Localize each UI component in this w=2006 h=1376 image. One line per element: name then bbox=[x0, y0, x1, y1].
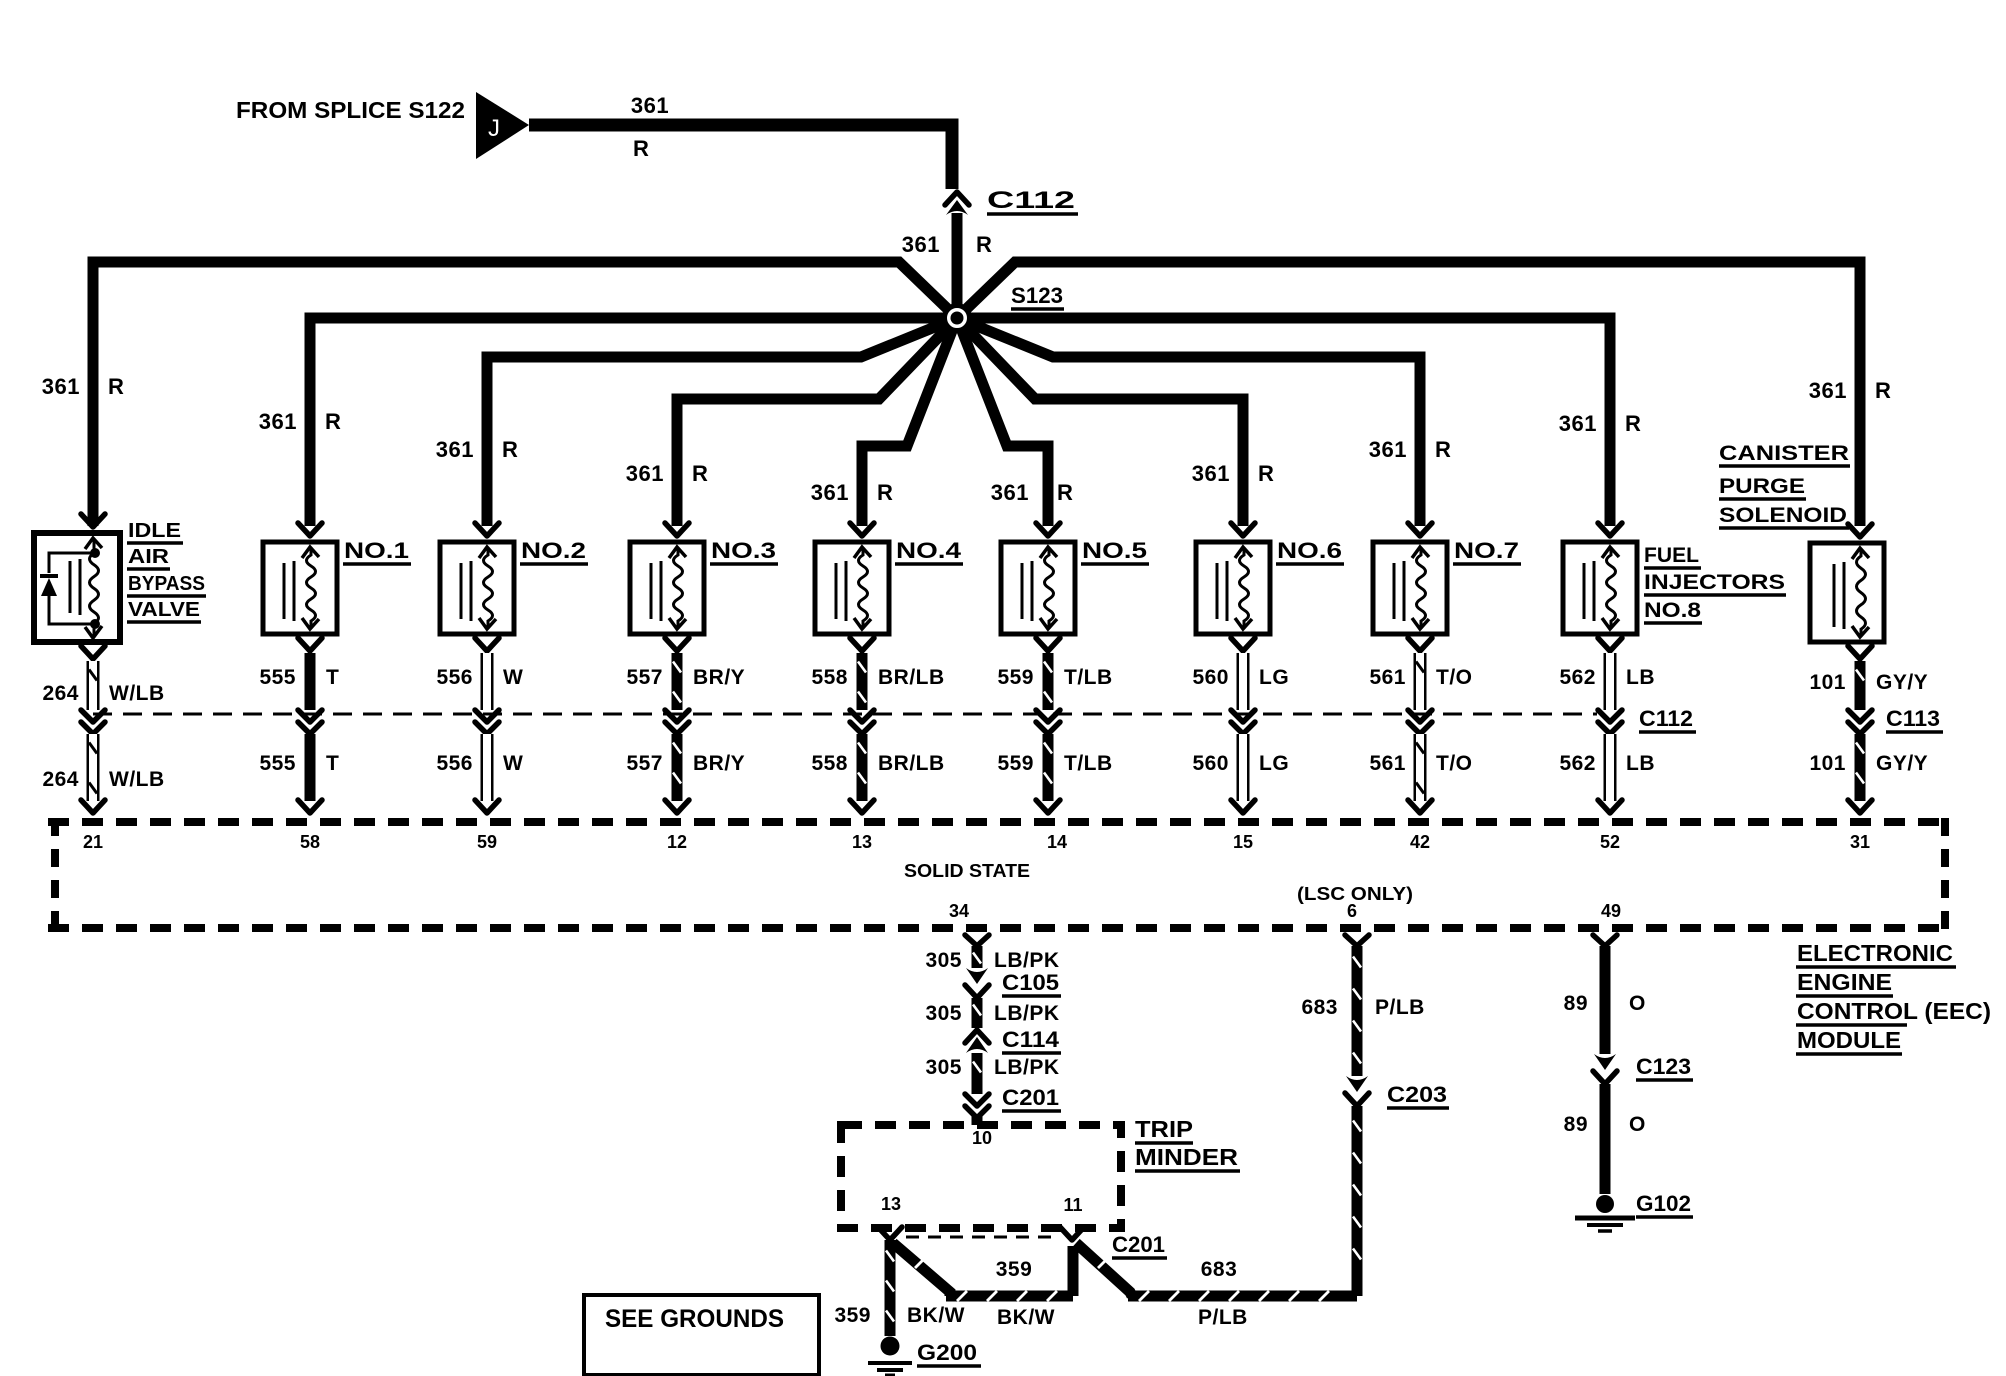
svg-text:R: R bbox=[1625, 411, 1641, 436]
ground G102 symbol bbox=[1596, 1195, 1614, 1213]
svg-text:BYPASS: BYPASS bbox=[128, 573, 205, 595]
wire 361 R from C112 to splice S123 bbox=[952, 213, 963, 318]
svg-text:C112: C112 bbox=[1639, 706, 1693, 731]
connector cup at EEC module pin 58 bbox=[298, 800, 322, 813]
connector crossing at harness line (x=1420) lower cup bbox=[1408, 722, 1432, 734]
svg-text:361: 361 bbox=[811, 480, 849, 505]
svg-text:49: 49 bbox=[1601, 901, 1621, 921]
connector cup below component (x=1420) bbox=[1408, 638, 1432, 651]
svg-text:R: R bbox=[1875, 378, 1891, 403]
connector cup at top of component (x=1420) bbox=[1408, 523, 1432, 536]
connector cup at trip minder pin 11 bbox=[1060, 1227, 1084, 1240]
splice arrow J (from splice S122) bbox=[476, 92, 529, 159]
connector cup at EEC pin 34 bbox=[965, 935, 989, 946]
connector crossing at harness line (x=1243) lower cup bbox=[1231, 722, 1255, 734]
svg-text:W: W bbox=[503, 666, 523, 689]
svg-text:359: 359 bbox=[834, 1304, 871, 1327]
svg-text:R: R bbox=[1057, 480, 1073, 505]
svg-text:FROM SPLICE S122: FROM SPLICE S122 bbox=[236, 97, 465, 123]
svg-text:361: 361 bbox=[631, 93, 669, 118]
svg-text:361: 361 bbox=[436, 437, 474, 462]
svg-text:683: 683 bbox=[1301, 996, 1338, 1019]
connector C201 lower cup (305 wire) bbox=[965, 1106, 989, 1118]
svg-text:PURGE: PURGE bbox=[1719, 475, 1805, 498]
connector crossing at harness line (x=862) lower cup bbox=[850, 722, 874, 734]
wire 361 R from splice S123 to injector NO.7 bbox=[957, 318, 1420, 526]
svg-text:558: 558 bbox=[811, 666, 848, 689]
wire 555 T lower segment bbox=[305, 734, 316, 801]
wire vertical up to trip minder pin 11 bbox=[1068, 1246, 1079, 1296]
wire 305 into trip minder bbox=[972, 1116, 983, 1125]
wire 361 R from splice S123 to injector NO.4 bbox=[862, 318, 957, 526]
svg-text:21: 21 bbox=[83, 832, 103, 852]
connector crossing at harness line (x=487) upper cup bbox=[475, 710, 499, 722]
svg-text:NO.3: NO.3 bbox=[711, 538, 776, 563]
svg-text:305: 305 bbox=[925, 949, 962, 972]
connector cup at EEC pin 49 bbox=[1593, 935, 1617, 946]
svg-text:361: 361 bbox=[626, 461, 664, 486]
svg-text:683: 683 bbox=[1201, 1258, 1238, 1281]
svg-text:BR/Y: BR/Y bbox=[693, 666, 745, 689]
svg-text:R: R bbox=[877, 480, 893, 505]
wire 361 R from splice S123 to injector NO.8 bbox=[957, 318, 1610, 526]
svg-text:T/LB: T/LB bbox=[1064, 752, 1113, 775]
svg-text:W/LB: W/LB bbox=[109, 682, 165, 705]
connector cup at EEC module pin 31 bbox=[1848, 800, 1872, 813]
fuel injector NO.6 bbox=[1196, 542, 1270, 634]
svg-text:C105: C105 bbox=[1002, 970, 1059, 995]
svg-text:361: 361 bbox=[259, 409, 297, 434]
svg-text:562: 562 bbox=[1559, 752, 1596, 775]
svg-text:VALVE: VALVE bbox=[128, 599, 200, 621]
svg-text:S123: S123 bbox=[1011, 283, 1063, 308]
svg-text:NO.7: NO.7 bbox=[1454, 538, 1519, 563]
connector C203 female cup bbox=[1345, 1093, 1369, 1106]
wire 361 R from splice S123 to injector NO.1 bbox=[310, 318, 957, 526]
wire 560 LG upper segment bbox=[1237, 653, 1250, 710]
connector cup at top of component (x=1860) bbox=[1848, 524, 1872, 537]
svg-text:G200: G200 bbox=[917, 1340, 977, 1365]
wire 89 O from pin 49 to C123 bbox=[1600, 946, 1611, 1054]
wire 561 T/O lower segment bbox=[1414, 734, 1427, 801]
connector crossing at harness line (x=1243) upper cup bbox=[1231, 710, 1255, 722]
svg-text:R: R bbox=[1258, 461, 1274, 486]
svg-text:CONTROL (EEC): CONTROL (EEC) bbox=[1797, 998, 1991, 1024]
svg-text:MINDER: MINDER bbox=[1135, 1144, 1238, 1170]
svg-text:264: 264 bbox=[42, 682, 79, 705]
connector line C201 (dashed, below trip minder) bbox=[906, 1236, 1059, 1239]
svg-text:562: 562 bbox=[1559, 666, 1596, 689]
fuel injector NO.5 bbox=[1001, 542, 1075, 634]
wire 683 P/LB from pin 6 to C203 bbox=[1352, 946, 1363, 1076]
svg-text:C201: C201 bbox=[1112, 1232, 1165, 1257]
svg-text:89: 89 bbox=[1564, 1113, 1588, 1136]
wire 559 T/LB upper segment bbox=[1043, 653, 1054, 710]
connector crossing at harness line (x=310) lower cup bbox=[298, 722, 322, 734]
svg-text:G102: G102 bbox=[1636, 1191, 1691, 1216]
connector crossing at harness line (x=1610) lower cup bbox=[1598, 722, 1622, 734]
svg-text:R: R bbox=[976, 232, 992, 257]
connector C123 male arrow bbox=[1594, 1054, 1616, 1070]
svg-text:C114: C114 bbox=[1002, 1027, 1060, 1052]
svg-text:31: 31 bbox=[1850, 832, 1870, 852]
wire 305 LB/PK segment 1 bbox=[972, 946, 983, 968]
wire 305 LB/PK segment 2 bbox=[972, 998, 983, 1028]
svg-text:P/LB: P/LB bbox=[1375, 996, 1425, 1019]
connector C123 female cup bbox=[1593, 1071, 1617, 1084]
wire 264 W/LB upper segment bbox=[87, 661, 100, 710]
connector C105 female cup bbox=[965, 985, 989, 998]
svg-text:561: 561 bbox=[1369, 666, 1406, 689]
connector cup below component (x=677) bbox=[665, 638, 689, 651]
svg-text:NO.6: NO.6 bbox=[1277, 538, 1342, 563]
svg-text:52: 52 bbox=[1600, 832, 1620, 852]
svg-text:557: 557 bbox=[626, 752, 663, 775]
svg-text:ENGINE: ENGINE bbox=[1797, 969, 1892, 995]
svg-text:NO.8: NO.8 bbox=[1644, 599, 1701, 622]
connector cup at EEC module pin 21 bbox=[81, 800, 105, 813]
connector cup below component (x=487) bbox=[475, 638, 499, 651]
connector cup at trip minder pin 13 bbox=[878, 1227, 902, 1240]
svg-text:SOLENOID: SOLENOID bbox=[1719, 504, 1847, 527]
svg-text:101: 101 bbox=[1809, 671, 1846, 694]
connector cup at EEC module pin 52 bbox=[1598, 800, 1622, 813]
svg-text:34: 34 bbox=[949, 901, 969, 921]
svg-text:LB/PK: LB/PK bbox=[994, 949, 1060, 972]
connector crossing at harness line (x=93) lower cup bbox=[81, 722, 105, 734]
svg-text:559: 559 bbox=[997, 666, 1034, 689]
svg-text:ELECTRONIC: ELECTRONIC bbox=[1797, 940, 1953, 966]
wire 560 LG lower segment bbox=[1237, 734, 1250, 801]
wire 683 P/LB from C203 down to horizontal run bbox=[1352, 1106, 1363, 1296]
svg-text:556: 556 bbox=[436, 666, 473, 689]
svg-text:12: 12 bbox=[667, 832, 687, 852]
connector cup at EEC module pin 12 bbox=[665, 800, 689, 813]
connector cup at top of component (x=677) bbox=[665, 523, 689, 536]
connector cup at EEC module pin 15 bbox=[1231, 800, 1255, 813]
wire 89 O from C123 to ground G102 bbox=[1600, 1084, 1611, 1194]
connector C114 female cup (facing down) bbox=[965, 1030, 989, 1043]
svg-text:13: 13 bbox=[881, 1194, 901, 1214]
svg-text:TRIP: TRIP bbox=[1135, 1116, 1193, 1142]
idle air bypass valve (box with diode, core and coil) bbox=[34, 533, 120, 642]
connector cup at top of component (x=487) bbox=[475, 523, 499, 536]
fuel injector NO.8 bbox=[1563, 542, 1637, 634]
connector crossing at harness line (x=1860) lower cup bbox=[1848, 722, 1872, 734]
wire 361 R from splice S123 to injector NO.3 bbox=[677, 318, 957, 526]
svg-text:NO.5: NO.5 bbox=[1082, 538, 1147, 563]
wire 361 R from splice S123 to idle air bypass valve bbox=[93, 262, 957, 526]
fuel injector NO.3 bbox=[630, 542, 704, 634]
svg-text:561: 561 bbox=[1369, 752, 1406, 775]
svg-text:560: 560 bbox=[1192, 666, 1229, 689]
connector cup at top of component (x=310) bbox=[298, 523, 322, 536]
svg-text:R: R bbox=[692, 461, 708, 486]
canister purge solenoid (box with core and coil) bbox=[1810, 543, 1884, 642]
wire 264 W/LB lower segment bbox=[87, 734, 100, 801]
wire 558 BR/LB lower segment bbox=[857, 734, 868, 801]
svg-text:P/LB: P/LB bbox=[1198, 1306, 1248, 1329]
wire 359 BK/W horizontal run bbox=[946, 1291, 1073, 1302]
wire 361 R from splice S123 to injector NO.2 bbox=[487, 318, 957, 526]
svg-text:C112: C112 bbox=[987, 187, 1075, 214]
wire 557 BR/Y lower segment bbox=[672, 734, 683, 801]
connector cup at EEC module pin 59 bbox=[475, 800, 499, 813]
svg-text:LB: LB bbox=[1626, 752, 1655, 775]
wire 361 R from splice S123 to injector NO.6 bbox=[957, 318, 1243, 526]
wire 361 R from splice S122 to connector C112 bbox=[529, 125, 952, 189]
svg-text:LB/PK: LB/PK bbox=[994, 1002, 1060, 1025]
fuel injector NO.7 bbox=[1373, 542, 1447, 634]
svg-text:IDLE: IDLE bbox=[128, 520, 181, 542]
svg-text:J: J bbox=[488, 115, 500, 142]
electronic engine control (EEC) module dashed box bbox=[48, 818, 1952, 826]
svg-text:LG: LG bbox=[1259, 752, 1289, 775]
connector cup below component (x=1610) bbox=[1598, 638, 1622, 651]
connector cup at EEC module pin 14 bbox=[1036, 800, 1060, 813]
svg-text:10: 10 bbox=[972, 1128, 992, 1148]
wire 305 LB/PK segment 3 bbox=[972, 1053, 983, 1094]
connector crossing at harness line (x=677) upper cup bbox=[665, 710, 689, 722]
svg-text:361: 361 bbox=[1559, 411, 1597, 436]
svg-text:555: 555 bbox=[259, 666, 296, 689]
connector C112 bottom half (male arrow) bbox=[946, 200, 968, 215]
splice S123 junction dot bbox=[945, 306, 970, 331]
diode inside idle air bypass valve bbox=[40, 574, 58, 578]
svg-text:13: 13 bbox=[852, 832, 872, 852]
svg-text:560: 560 bbox=[1192, 752, 1229, 775]
svg-text:BR/LB: BR/LB bbox=[878, 752, 945, 775]
connector crossing at harness line (x=1420) upper cup bbox=[1408, 710, 1432, 722]
top inner arrow idle air bypass valve bbox=[85, 538, 102, 549]
svg-text:R: R bbox=[502, 437, 518, 462]
connector cup at top of component (x=1610) bbox=[1598, 523, 1622, 536]
fuel injector NO.4 bbox=[815, 542, 889, 634]
coil inside idle air bypass valve bbox=[90, 540, 99, 637]
svg-text:101: 101 bbox=[1809, 752, 1846, 775]
connector cup below component (x=1860) bbox=[1848, 646, 1872, 659]
svg-text:BK/W: BK/W bbox=[997, 1306, 1055, 1329]
svg-text:AIR: AIR bbox=[128, 546, 170, 568]
connector cup below component (x=862) bbox=[850, 638, 874, 651]
svg-text:INJECTORS: INJECTORS bbox=[1644, 571, 1785, 594]
svg-text:58: 58 bbox=[300, 832, 320, 852]
svg-text:359: 359 bbox=[996, 1258, 1033, 1281]
svg-text:T: T bbox=[326, 666, 339, 689]
svg-text:361: 361 bbox=[902, 232, 940, 257]
svg-text:555: 555 bbox=[259, 752, 296, 775]
connector C105 male arrow bbox=[966, 968, 988, 984]
connector cup below component (x=1048) bbox=[1036, 638, 1060, 651]
svg-text:GY/Y: GY/Y bbox=[1876, 752, 1928, 775]
svg-text:R: R bbox=[1435, 437, 1451, 462]
svg-text:NO.2: NO.2 bbox=[521, 538, 586, 563]
fuel injector NO.1 bbox=[263, 542, 337, 634]
svg-text:LG: LG bbox=[1259, 666, 1289, 689]
connector crossing at harness line (x=677) lower cup bbox=[665, 722, 689, 734]
svg-text:LB/PK: LB/PK bbox=[994, 1056, 1060, 1079]
svg-text:W/LB: W/LB bbox=[109, 768, 165, 791]
svg-text:T/O: T/O bbox=[1436, 752, 1473, 775]
wire 562 LB upper segment bbox=[1604, 653, 1617, 710]
wire 556 W lower segment bbox=[481, 734, 494, 801]
connector cup at top of component (x=1048) bbox=[1036, 523, 1060, 536]
svg-text:361: 361 bbox=[1369, 437, 1407, 462]
SEE GROUNDS note box bbox=[584, 1295, 819, 1375]
connector cup below component (x=310) bbox=[298, 638, 322, 651]
connector crossing at harness line (x=862) upper cup bbox=[850, 710, 874, 722]
svg-text:NO.1: NO.1 bbox=[344, 538, 409, 563]
svg-text:42: 42 bbox=[1410, 832, 1430, 852]
connector crossing at harness line (x=93) upper cup bbox=[81, 710, 105, 722]
svg-text:264: 264 bbox=[42, 768, 79, 791]
connector line C112 (dashed, across harness) bbox=[93, 713, 1597, 716]
connector crossing at harness line (x=1048) upper cup bbox=[1036, 710, 1060, 722]
svg-text:SOLID STATE: SOLID STATE bbox=[904, 861, 1030, 881]
wire 561 T/O upper segment bbox=[1414, 653, 1427, 710]
svg-text:BK/W: BK/W bbox=[907, 1304, 965, 1327]
wire 359 BK/W diagonal from pin 13 bbox=[893, 1243, 950, 1296]
svg-text:14: 14 bbox=[1047, 832, 1067, 852]
svg-text:559: 559 bbox=[997, 752, 1034, 775]
svg-text:C203: C203 bbox=[1387, 1082, 1447, 1107]
svg-text:NO.4: NO.4 bbox=[896, 538, 962, 563]
connector cup at top of component (x=862) bbox=[850, 523, 874, 536]
svg-text:11: 11 bbox=[1063, 1195, 1082, 1215]
connector C203 male arrow bbox=[1346, 1076, 1368, 1092]
svg-text:361: 361 bbox=[42, 374, 80, 399]
svg-text:O: O bbox=[1629, 992, 1646, 1015]
wire 555 T upper segment bbox=[305, 653, 316, 710]
svg-text:W: W bbox=[503, 752, 523, 775]
wire 556 W upper segment bbox=[481, 653, 494, 710]
connector C112 top half (female cup) bbox=[945, 192, 969, 205]
svg-text:305: 305 bbox=[925, 1056, 962, 1079]
svg-text:BR/LB: BR/LB bbox=[878, 666, 945, 689]
wire 562 LB lower segment bbox=[1604, 734, 1617, 801]
svg-text:305: 305 bbox=[925, 1002, 962, 1025]
wire 359 BK/W from pin 13 to ground G200 bbox=[885, 1240, 896, 1336]
svg-text:C113: C113 bbox=[1886, 706, 1940, 731]
svg-text:O: O bbox=[1629, 1113, 1646, 1136]
wire 101 GY/Y lower segment bbox=[1855, 734, 1866, 801]
connector cup at top of component (x=1243) bbox=[1231, 523, 1255, 536]
trip minder dashed box bbox=[841, 1125, 1121, 1228]
svg-text:CANISTER: CANISTER bbox=[1719, 442, 1849, 465]
connector crossing at harness line (x=487) lower cup bbox=[475, 722, 499, 734]
svg-text:89: 89 bbox=[1564, 992, 1588, 1015]
connector C201 upper cup (305 wire) bbox=[965, 1094, 989, 1106]
svg-text:LB: LB bbox=[1626, 666, 1655, 689]
wire 683 P/LB diagonal from pin 11 bbox=[1076, 1243, 1132, 1296]
connector cup at top of component (x=93) bbox=[81, 514, 105, 527]
svg-text:T: T bbox=[326, 752, 339, 775]
svg-text:GY/Y: GY/Y bbox=[1876, 671, 1928, 694]
svg-text:BR/Y: BR/Y bbox=[693, 752, 745, 775]
svg-text:59: 59 bbox=[477, 832, 497, 852]
svg-text:556: 556 bbox=[436, 752, 473, 775]
svg-text:C201: C201 bbox=[1002, 1085, 1059, 1110]
svg-text:C123: C123 bbox=[1636, 1054, 1691, 1079]
core lines inside idle air bypass valve bbox=[69, 561, 72, 613]
svg-text:T/LB: T/LB bbox=[1064, 666, 1113, 689]
bottom inner arrow idle air bypass valve bbox=[85, 626, 102, 638]
wire 361 R from splice S123 to canister purge solenoid bbox=[957, 262, 1860, 526]
svg-text:FUEL: FUEL bbox=[1644, 544, 1699, 567]
svg-text:557: 557 bbox=[626, 666, 663, 689]
connector crossing at harness line (x=1048) lower cup bbox=[1036, 722, 1060, 734]
connector cup at EEC pin 6 bbox=[1345, 935, 1369, 946]
connector C114 male arrow (pointing up) bbox=[966, 1037, 988, 1053]
svg-text:558: 558 bbox=[811, 752, 848, 775]
connector crossing at harness line (x=1860) upper cup bbox=[1848, 710, 1872, 722]
connector cup at EEC module pin 42 bbox=[1408, 800, 1432, 813]
wire 361 R from splice S123 to injector NO.5 bbox=[957, 318, 1048, 526]
junction dots inside idle air bypass valve bbox=[90, 548, 100, 558]
svg-text:15: 15 bbox=[1233, 832, 1253, 852]
svg-text:T/O: T/O bbox=[1436, 666, 1473, 689]
svg-text:361: 361 bbox=[991, 480, 1029, 505]
wire 559 T/LB lower segment bbox=[1043, 734, 1054, 801]
svg-text:SEE GROUNDS: SEE GROUNDS bbox=[605, 1305, 784, 1333]
svg-text:MODULE: MODULE bbox=[1797, 1027, 1901, 1053]
fuel injector NO.2 bbox=[440, 542, 514, 634]
wire 557 BR/Y upper segment bbox=[672, 653, 683, 710]
connector cup at EEC module pin 13 bbox=[850, 800, 874, 813]
svg-text:R: R bbox=[108, 374, 124, 399]
connector crossing at harness line (x=310) upper cup bbox=[298, 710, 322, 722]
wire 101 GY/Y upper segment bbox=[1855, 661, 1866, 710]
connector cup below component (x=1243) bbox=[1231, 638, 1255, 651]
svg-text:361: 361 bbox=[1809, 378, 1847, 403]
wire 558 BR/LB upper segment bbox=[857, 653, 868, 710]
svg-text:6: 6 bbox=[1347, 901, 1357, 921]
ground G200 symbol bbox=[881, 1337, 900, 1356]
svg-text:R: R bbox=[325, 409, 341, 434]
wire 683 P/LB horizontal run bbox=[1128, 1291, 1357, 1302]
svg-text:361: 361 bbox=[1192, 461, 1230, 486]
svg-text:R: R bbox=[633, 136, 649, 161]
connector crossing at harness line (x=1610) upper cup bbox=[1598, 710, 1622, 722]
connector cup below component (x=93) bbox=[81, 646, 105, 659]
